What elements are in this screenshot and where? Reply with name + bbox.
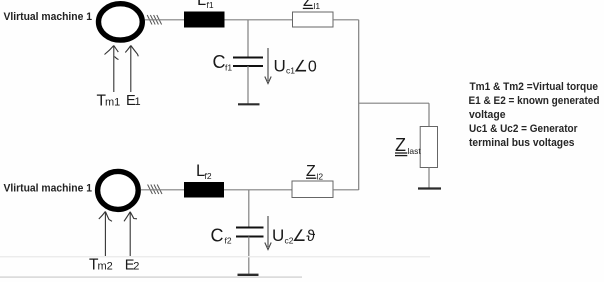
- inductor L_f1: [184, 12, 225, 28]
- label Z_l1: [303, 0, 321, 11]
- wire node A down to C_f1: [247, 20, 249, 57]
- svg-text:C: C: [211, 226, 224, 246]
- svg-text:m2: m2: [98, 261, 113, 273]
- wire L_f1 to Z_l1: [225, 19, 293, 21]
- arrow U_c1 (voltage arrow): [265, 48, 271, 84]
- arrow Tm1 (input arrow, up into G1): [105, 46, 119, 93]
- squiggle hash marks on G2 lead: [148, 185, 162, 195]
- label U_c1 angle 0: [274, 57, 317, 76]
- svg-text:l2: l2: [317, 171, 324, 181]
- svg-text:L: L: [197, 0, 206, 9]
- svg-text:U: U: [272, 226, 284, 245]
- wire node B down to C_f2: [248, 190, 250, 227]
- label U_c2 angle theta: [272, 226, 315, 246]
- wire C_f2 to ground: [248, 237, 250, 274]
- svg-text:Tm1 & Tm2 =Virtual torque: Tm1 & Tm2 =Virtual torque: [470, 81, 599, 93]
- label Tm1: [97, 93, 121, 110]
- machine G1 (virtual machine circle): [99, 4, 143, 40]
- arrow E1 (input arrow, up into G1): [125, 46, 138, 93]
- arrow U_c2 (voltage arrow): [265, 216, 271, 250]
- wire G2 to L_f2: [141, 189, 184, 191]
- label L_f2: [196, 162, 212, 181]
- label C_f2: [211, 226, 232, 246]
- wire G1 to L_f1: [145, 19, 184, 21]
- svg-text:terminal bus voltages: terminal bus voltages: [469, 137, 575, 149]
- svg-text:E1 & E2 = known generated: E1 & E2 = known generated: [469, 95, 600, 107]
- svg-text:∠0: ∠0: [294, 59, 317, 76]
- ground (Z_last): [418, 187, 441, 189]
- faint scan ghost line: [0, 256, 430, 257]
- svg-text:∠ϑ: ∠ϑ: [292, 228, 315, 245]
- svg-text:l1: l1: [314, 1, 321, 11]
- label C_f1: [213, 52, 233, 73]
- label E2: [125, 258, 140, 274]
- inductor L_f2: [184, 182, 224, 198]
- svg-text:voltage: voltage: [469, 109, 506, 121]
- svg-text:m1: m1: [105, 97, 120, 109]
- arrow E2 (input arrow, up into G2): [124, 212, 137, 256]
- bus vertical wire: [358, 20, 360, 190]
- wire Z_l1 to bus: [333, 19, 359, 21]
- wire Z_last to ground: [428, 168, 430, 189]
- capacitor C_f1 plates: [233, 57, 263, 59]
- label E1: [126, 93, 141, 109]
- label L_f1: [197, 0, 214, 10]
- svg-text:f2: f2: [205, 171, 212, 181]
- svg-text:f1: f1: [207, 0, 214, 10]
- ground (C_f1): [238, 103, 260, 105]
- label Tm2: [89, 257, 113, 274]
- wire Z_l2 to bus: [333, 189, 359, 191]
- branch wire to Z_last: [359, 102, 429, 104]
- ground (C_f2): [238, 274, 259, 276]
- svg-text:C: C: [213, 52, 226, 72]
- squiggle hash marks on G1 lead: [147, 15, 161, 25]
- svg-text:Vlirtual machine 1: Vlirtual machine 1: [4, 11, 93, 23]
- impedance Z_last: [420, 127, 437, 168]
- machine G2 (virtual machine circle, bottom): [98, 171, 139, 209]
- legend text block: [469, 81, 600, 149]
- svg-text:U: U: [274, 57, 286, 76]
- arrow Tm2 (input arrow, up into G2): [99, 212, 112, 257]
- impedance Z_l1: [293, 12, 334, 27]
- svg-text:Uc1 & Uc2 = Generator: Uc1 & Uc2 = Generator: [469, 123, 578, 135]
- impedance Z_l2: [292, 181, 333, 198]
- wire down to Z_last: [428, 103, 430, 126]
- svg-text:last: last: [408, 146, 422, 156]
- label Z_last: [395, 135, 421, 156]
- svg-text:f1: f1: [225, 63, 232, 73]
- svg-text:2: 2: [133, 261, 139, 273]
- capacitor C_f2 plates: [236, 227, 264, 229]
- label Z_l2: [306, 163, 323, 181]
- svg-text:Vlirtual machine 1: Vlirtual machine 1: [4, 183, 93, 195]
- wire L_f2 to Z_l2: [224, 189, 292, 191]
- wire C_f1 to ground: [247, 66, 249, 104]
- svg-text:1: 1: [135, 96, 141, 108]
- svg-text:f2: f2: [225, 236, 232, 246]
- svg-text:Z: Z: [395, 135, 406, 155]
- faint scan band bottom: [0, 276, 302, 278]
